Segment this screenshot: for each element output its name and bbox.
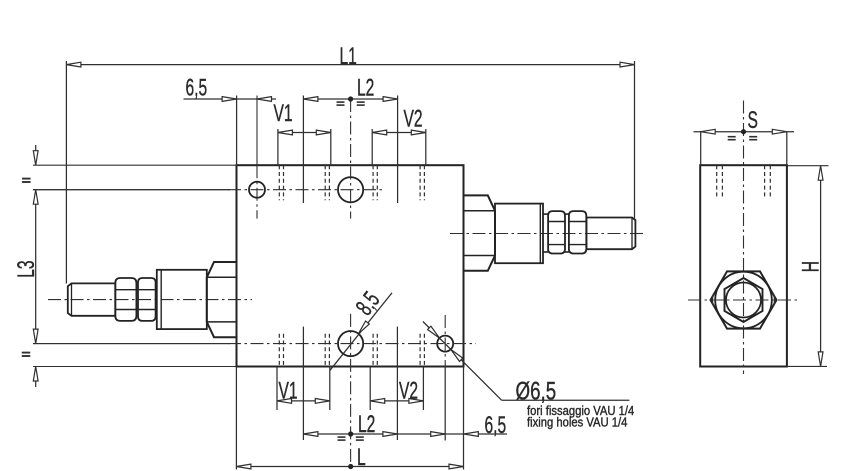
left dimension horizontal extension bottom-edge [33,366,237,368]
svg-text:Ø6,5: Ø6,5 [516,377,557,405]
side view internal hex socket [725,278,763,322]
fixing hole bottom-right Ø6,5 [437,336,453,352]
dimension L2 bottom symmetry marks [338,436,346,438]
left fitting lock nut inner [138,278,156,321]
svg-text:6,5: 6,5 [186,75,208,101]
label equal upper [22,178,31,180]
left dimension line upper tail [35,145,37,165]
svg-text:V1: V1 [279,378,298,404]
hidden port line pair bottom 2 [324,334,326,367]
fixing hole top-left vertical centerline [256,96,258,166]
hidden port line pair top 2 [324,165,326,200]
dimension S symmetry marks [728,136,736,138]
svg-text:L3: L3 [14,260,40,277]
left dimension upper equal arrow [33,151,38,166]
svg-text:L2: L2 [357,75,374,101]
dimension L3 line [35,190,37,344]
right fitting centerline [450,233,645,235]
svg-text:V1: V1 [274,101,293,127]
dimension V1 top extensions [277,129,279,165]
svg-text:H: H [798,261,824,272]
hidden port line pair bottom 3 [372,334,374,367]
dimension L2 top center dot [348,96,353,101]
dimension S arrows [701,129,716,134]
front view valve body outline [237,165,464,366]
left dimension horizontal extension top-edge [33,164,237,166]
dimension V1 bottom extensions [276,367,278,411]
side view vertical centerline [743,101,745,375]
dimension L2 top extension left [302,96,304,204]
dimension L2 top arrows [303,97,318,102]
dimension H arrows [818,166,823,181]
dimension V1 bottom line [277,400,330,402]
dimension 6,5 bottom extension hole [444,367,446,441]
dimension L2 bottom line [303,433,507,435]
dimension 6,5 top extension body-edge [236,96,238,166]
side view horizontal centerline [688,299,799,301]
dimension V1 top line [278,132,331,134]
left fitting centerline [48,299,252,301]
side view hidden fixing hole left [716,165,718,197]
leader line diameter 6,5 [423,322,502,401]
dimension L1 extension right [634,61,636,220]
hidden port line pair top 1 [278,165,280,200]
right fitting stem [587,218,636,250]
port hole top-center 8,5 [338,177,363,202]
bottom holes horizontal centerline [33,343,230,345]
hidden port line pair bottom 1 [278,334,280,367]
right fitting adjustment cylinder [495,204,543,264]
dimension L2 top extension right [397,96,399,204]
label equal lower [22,352,31,354]
svg-text:L: L [357,445,366,471]
left dimension horizontal extension top-centerline [33,189,230,191]
dimension V2 top line [372,132,426,134]
dimension H line [820,166,822,367]
dimension S extensions [700,132,702,166]
dimension L1 arrows [66,62,81,67]
dimension L2 bottom extension left [302,327,304,440]
dimension V2 top arrows [372,130,387,135]
left fitting stem [68,283,116,315]
dimension V2 bottom arrows [370,399,385,404]
dimension S center dot [741,129,746,134]
right fitting neck 2 [565,213,569,215]
dimension L1 line [66,64,634,66]
top holes horizontal centerline [33,189,230,191]
dimension 6,5 top arrows [222,97,237,102]
dimension L arrows [236,464,251,469]
leader arrow 8,5 [358,321,369,334]
bottom hole vertical centerline [350,314,352,471]
svg-text:fixing holes VAU 1/4: fixing holes VAU 1/4 [527,415,628,430]
svg-text:S: S [748,108,758,134]
left fitting adjustment cylinder [157,270,207,329]
leader line 8,5 [330,293,392,371]
side view hex chamfer arcs [712,294,713,307]
dimension 6,5 top line [184,98,277,100]
left dimension line lower tail [35,367,37,388]
dimension V1 top arrows [278,130,293,135]
fixing hole top-left Ø6,5 [249,182,265,198]
side view hex nut chamfer circle [715,272,772,329]
left fitting body hex [207,262,237,337]
side view socket circle [726,283,761,318]
dimension V2 top extensions [371,129,373,165]
left fitting lock nut outer [115,278,136,321]
side view body outline [700,165,787,366]
dimension 6,5 bottom arrows [431,432,446,437]
dimension L2 top symmetry marks [337,101,345,103]
dimension L center dot [348,464,353,469]
svg-text:L1: L1 [340,44,357,70]
right fitting lock nut outer [569,211,586,253]
left dimension lower equal arrow [33,367,38,382]
dimension L extension right [463,367,465,470]
svg-text:6,5: 6,5 [485,413,507,439]
dimension H extension top [787,165,829,167]
dimension H extension bottom [787,365,827,367]
right fitting body hex [464,195,496,270]
dimension L1 extension left [65,61,67,284]
dimension L2 bottom center dot [348,431,353,436]
top hole vertical centerline [350,99,352,219]
dimension V2 bottom line [370,400,423,402]
dimension V1 bottom arrows [277,399,292,404]
dimension L2 top line [303,98,397,100]
dimension L line [236,466,463,468]
left dimension horizontal extension bottom-centerline [33,343,230,345]
hidden port line pair bottom 4 [419,334,421,367]
dimension L extension left [235,367,237,470]
port hole bottom-center 8,5 [338,331,363,356]
leader arrows diameter 6,5 [428,326,440,338]
fixing hole bottom-right vertical centerline [444,315,446,367]
side view hex nut outer hexagon [711,271,777,328]
dimension L3 arrows [33,190,38,205]
hidden port line pair top 4 [419,165,421,200]
dimension L2 bottom arrows [303,432,318,437]
side view hidden fixing hole right [764,165,766,197]
dimension L2 bottom extension right [396,327,398,440]
right fitting neck 1 [543,213,548,215]
svg-text:L2: L2 [358,412,375,438]
svg-text:V2: V2 [399,378,418,404]
hidden port line pair top 3 [372,165,374,200]
dimension V2 bottom extensions [369,367,371,411]
svg-text:V2: V2 [404,106,423,132]
right fitting lock nut inner [548,211,565,253]
dimension S line [694,131,795,133]
